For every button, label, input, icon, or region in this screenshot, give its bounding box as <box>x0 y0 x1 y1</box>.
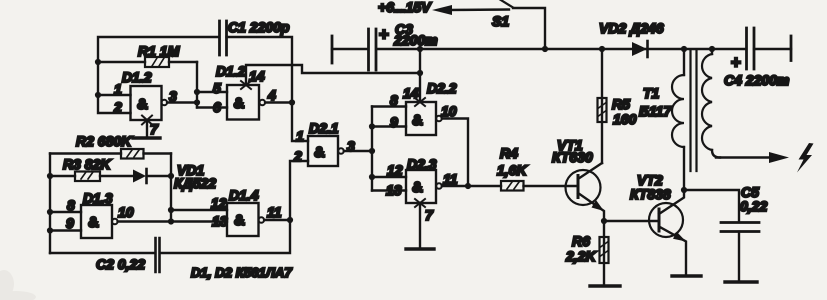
node rail-primary <box>681 46 687 52</box>
svg-text:VD2 Д246: VD2 Д246 <box>599 20 664 36</box>
svg-text:+: + <box>379 25 389 44</box>
svg-text:КД522: КД522 <box>174 175 216 191</box>
spark symbol lightning <box>797 143 814 173</box>
svg-text:+6...15V: +6...15V <box>378 0 432 15</box>
svg-text:13: 13 <box>386 182 402 198</box>
wire gate1 output <box>167 101 197 103</box>
svg-text:R4: R4 <box>500 145 518 161</box>
switch S1 <box>492 0 545 49</box>
ground R6 <box>590 284 620 287</box>
svg-text:&: & <box>412 112 423 129</box>
svg-text:2,2K: 2,2K <box>565 248 596 264</box>
node pin14 tap <box>417 70 423 76</box>
wire D2.2 output down <box>442 119 468 187</box>
node VD1 junction <box>168 173 174 179</box>
svg-text:11: 11 <box>267 204 282 220</box>
svg-text:D1.2: D1.2 <box>122 69 152 85</box>
wire left rail lower <box>49 154 51 254</box>
svg-text:R3 82K: R3 82K <box>63 156 111 172</box>
wire +rail <box>377 48 746 50</box>
svg-text:160: 160 <box>613 111 637 127</box>
node pin11 junction <box>287 217 293 223</box>
node dist-out <box>369 148 375 154</box>
svg-text:Б117: Б117 <box>639 103 672 119</box>
op-amp gate D2.1 <box>293 120 355 166</box>
node rail-secondary <box>709 46 715 52</box>
capacitor C4 <box>724 28 791 88</box>
pin 7 mark of D2.3 <box>415 199 425 207</box>
wire spark output <box>716 156 771 158</box>
wire pin14 of D2.2 to rail <box>419 49 421 102</box>
node rail-pin14 <box>417 46 423 52</box>
svg-text:T1: T1 <box>643 85 660 101</box>
svg-text:S1: S1 <box>492 13 509 29</box>
arrowhead spark output <box>769 152 789 163</box>
wire pin9 <box>50 229 81 231</box>
wire pin8 of D2.2 <box>372 105 406 107</box>
pin 14 mark of D2.2 <box>415 98 425 106</box>
svg-text:8: 8 <box>67 197 75 213</box>
svg-text:R5: R5 <box>612 96 630 112</box>
node rail-pin8 <box>47 209 53 215</box>
svg-text:R6: R6 <box>572 233 590 249</box>
battery terminal C3 left <box>331 36 334 63</box>
svg-text:1: 1 <box>114 81 122 97</box>
op-amp gate D2.3 <box>386 156 458 203</box>
svg-text:+: + <box>731 53 741 72</box>
svg-text:10: 10 <box>441 103 457 119</box>
svg-text:1: 1 <box>296 128 304 144</box>
wire to D2.1 pin2 <box>290 161 308 220</box>
op-amp gate D1.2a <box>113 69 177 120</box>
wire pin13 of D2.3 <box>372 189 406 191</box>
svg-text:7: 7 <box>425 207 434 223</box>
node primary-collector-C5 <box>681 187 687 193</box>
svg-text:2200m: 2200m <box>393 32 438 48</box>
wire D1.4 output <box>264 219 290 221</box>
wire D2.1 output <box>344 150 372 152</box>
wire pin12 of D1.4 <box>171 209 227 211</box>
svg-text:КТ838: КТ838 <box>630 186 671 202</box>
capacitor C1 <box>220 19 293 103</box>
svg-text:2: 2 <box>113 99 122 115</box>
svg-text:C1 2200p: C1 2200p <box>228 19 290 35</box>
transistor VT1 <box>552 137 604 221</box>
node rail-R5 <box>599 46 605 52</box>
wire pin12 of D2.3 <box>372 176 406 178</box>
node VT1 emitter junction <box>601 218 607 224</box>
diode VD1 <box>133 162 216 191</box>
op-amp gate D1.4 <box>211 187 282 236</box>
svg-text:&: & <box>234 212 245 229</box>
wire left rail top <box>98 37 219 113</box>
svg-text:R1 1M: R1 1M <box>138 43 180 59</box>
wire gate2 output pin4 <box>265 101 292 103</box>
wire gate D1.3 output to D1.4 pin13 <box>118 220 227 222</box>
node rail-R3 <box>47 173 53 179</box>
ground VT2 emitter <box>672 274 701 277</box>
svg-text:7: 7 <box>150 121 159 137</box>
node dist-pin12 <box>369 174 375 180</box>
wire pin5 <box>197 91 227 93</box>
node output-R1 <box>194 89 200 95</box>
resistor R4 <box>497 145 578 191</box>
svg-text:9: 9 <box>390 114 398 130</box>
svg-text:&: & <box>412 179 423 196</box>
svg-text:5: 5 <box>213 80 221 96</box>
svg-text:10: 10 <box>118 204 134 220</box>
svg-text:&: & <box>234 95 245 112</box>
op-amp gate D1.2b <box>213 63 276 120</box>
node outputs tie <box>465 183 471 189</box>
svg-text:9: 9 <box>66 215 74 231</box>
transistor VT2 <box>630 172 686 276</box>
svg-text:12: 12 <box>387 162 403 178</box>
svg-text:D2.2: D2.2 <box>427 80 457 96</box>
wire pin8 <box>50 211 81 213</box>
pin 14 mark of D1.2b <box>241 81 251 89</box>
wire pin9 of D2.2 <box>372 125 406 127</box>
node pin12 junction <box>168 207 174 213</box>
svg-text:8: 8 <box>390 92 398 108</box>
wire D2.3 output <box>442 185 501 187</box>
wire to D2.1 pin1 <box>292 103 308 142</box>
capacitor C5 <box>684 184 767 282</box>
node rail-pin9 <box>47 227 53 233</box>
svg-text:11: 11 <box>443 171 458 187</box>
svg-text:C2 0,22: C2 0,22 <box>96 256 145 272</box>
node rail-R1 <box>95 59 101 65</box>
capacitor C3 <box>369 21 438 70</box>
svg-text:2: 2 <box>293 148 302 164</box>
node pin10 junction <box>168 218 174 224</box>
transformer T1 core <box>691 50 697 171</box>
svg-text:D1.2: D1.2 <box>216 63 246 79</box>
resistor R3 <box>50 156 133 181</box>
node rail-pin1 <box>95 92 101 98</box>
svg-text:&: & <box>314 144 325 161</box>
op-amp gate D2.2 <box>390 80 457 135</box>
op-amp gate D1.3 <box>66 190 134 238</box>
ground pin7 of D2.3 <box>406 203 434 249</box>
svg-text:4: 4 <box>267 87 276 103</box>
wire pin6 <box>197 106 227 108</box>
resistor R5 <box>598 49 637 163</box>
wire R1 to gate output node <box>196 62 198 108</box>
diode VD2 <box>599 20 664 57</box>
svg-text:D2.1: D2.1 <box>309 120 339 136</box>
wire R2/VD1 to inputs <box>170 154 172 222</box>
resistor R6 <box>565 221 609 286</box>
svg-text:6: 6 <box>213 99 221 115</box>
wire arrow to supply <box>449 8 509 11</box>
wire pin1 <box>98 94 131 96</box>
svg-text:&: & <box>137 96 148 113</box>
svg-text:1,6K: 1,6K <box>497 162 527 178</box>
capacitor C2 <box>50 220 290 272</box>
svg-text:КТ630: КТ630 <box>552 149 593 165</box>
wire terminal to C3 <box>332 48 367 50</box>
svg-text:D1.3: D1.3 <box>83 190 113 206</box>
node S1-rail <box>542 46 548 52</box>
svg-text:D1.4: D1.4 <box>229 187 259 203</box>
transformer T1 secondary <box>702 49 720 158</box>
arrowhead supply <box>432 5 452 15</box>
svg-text:12: 12 <box>211 195 227 211</box>
svg-text:&: & <box>88 214 99 231</box>
wire pin14 to +rail <box>246 65 420 85</box>
wire distribution vertical <box>371 107 373 191</box>
ground C5 <box>725 280 757 283</box>
transformer T1 primary <box>672 49 684 190</box>
svg-text:13: 13 <box>212 213 228 229</box>
svg-text:D1, D2 К561ЛА7: D1, D2 К561ЛА7 <box>191 265 292 280</box>
resistor R1 <box>98 43 197 67</box>
svg-text:C4 2200m: C4 2200m <box>724 72 789 88</box>
svg-text:0,22: 0,22 <box>740 198 767 214</box>
resistor R2 <box>50 133 171 159</box>
wire emitter to VT2 base <box>604 220 659 222</box>
ground pin7 of D1.2a <box>133 116 160 139</box>
svg-text:D2.3: D2.3 <box>407 156 437 172</box>
svg-text:R2 680K: R2 680K <box>76 133 132 149</box>
node pin4-C1 junction <box>289 99 295 105</box>
node dist-pin9 <box>369 123 375 129</box>
